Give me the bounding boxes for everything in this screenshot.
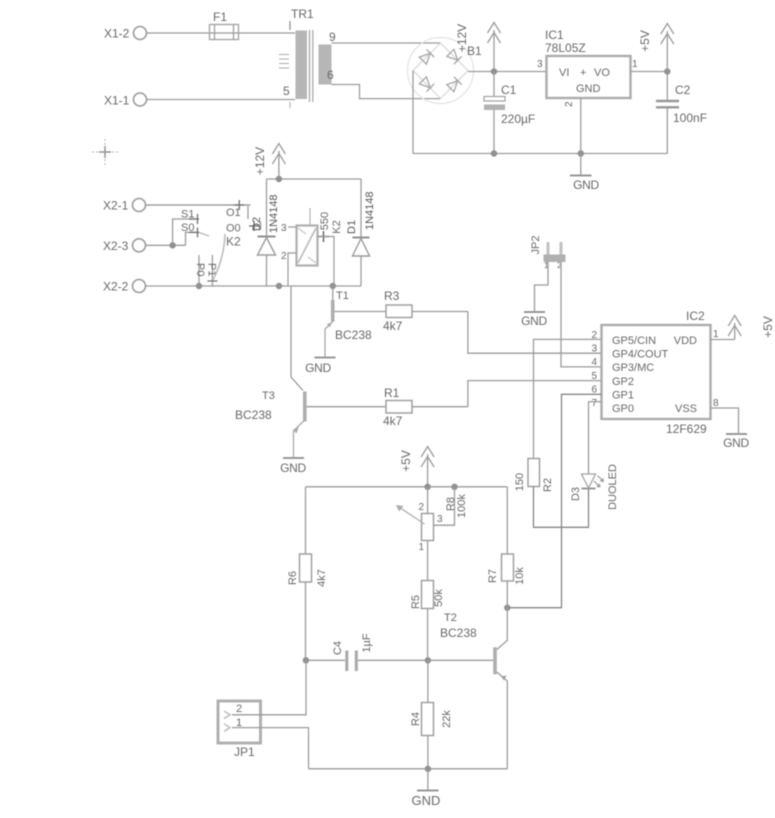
jumper JP2 xyxy=(530,236,566,270)
+5V rail lower xyxy=(306,486,508,488)
svg-text:X2-3: X2-3 xyxy=(103,239,129,253)
connector X1-1 xyxy=(104,93,147,108)
svg-text:T3: T3 xyxy=(262,390,275,402)
svg-text:3: 3 xyxy=(437,514,443,525)
wire TR1 pin9 to bridge top xyxy=(332,42,441,44)
junction C1 gnd rail xyxy=(491,150,497,156)
svg-text:C4: C4 xyxy=(332,641,344,655)
junction +12V rail xyxy=(276,176,282,182)
svg-text:R7: R7 xyxy=(487,569,499,583)
junction R4 bottom rail xyxy=(425,766,431,772)
ground GND psu xyxy=(570,154,600,193)
relay +12V top rail xyxy=(267,178,362,180)
wire bridge plus to IC1 input xyxy=(468,71,547,73)
wire IC1 output to +5V xyxy=(631,71,668,73)
svg-text:GND: GND xyxy=(573,178,599,192)
IC U2 12F629 xyxy=(591,309,719,436)
ground GND VSS xyxy=(723,434,749,450)
supply symbol +5V lower xyxy=(399,447,434,487)
sheet crosshair mark xyxy=(92,139,118,165)
junction +5V rail wiper xyxy=(451,484,457,490)
wire X1-2 to F1 to TR1 pin1 xyxy=(147,32,295,34)
svg-text:100nF: 100nF xyxy=(673,111,707,125)
wire R3 to IC2 GP4 xyxy=(468,312,602,354)
junction +5V rail R8 xyxy=(424,484,430,490)
wire IC2 GP5 to R2 xyxy=(534,339,602,458)
svg-text:9: 9 xyxy=(329,30,336,44)
svg-text:IC1: IC1 xyxy=(545,28,564,42)
svg-text:S1: S1 xyxy=(181,209,194,221)
svg-text:1: 1 xyxy=(632,59,638,70)
svg-text:X2-2: X2-2 xyxy=(103,280,129,294)
svg-text:R1: R1 xyxy=(384,386,400,400)
transistor T3 BC238 xyxy=(235,286,307,457)
svg-text:VI: VI xyxy=(559,67,569,79)
ground GND bottom xyxy=(412,769,441,808)
connector X2-1 xyxy=(103,199,146,213)
svg-text:B1: B1 xyxy=(467,44,482,58)
svg-text:GND: GND xyxy=(305,361,331,375)
wire TR1 pin6 to bridge bottom xyxy=(332,85,441,99)
resistor R1 4k7 xyxy=(307,386,468,428)
svg-text:3: 3 xyxy=(591,344,597,355)
svg-text:1µF: 1µF xyxy=(361,633,373,652)
svg-text:D1: D1 xyxy=(346,220,358,234)
fuse F1 xyxy=(210,10,239,40)
resistor R4 22k xyxy=(410,660,453,769)
svg-text:BC238: BC238 xyxy=(440,626,477,640)
svg-text:GP4/COUT: GP4/COUT xyxy=(612,349,669,361)
transformer TR1 xyxy=(279,7,336,108)
svg-text:1: 1 xyxy=(713,329,719,340)
svg-text:4k7: 4k7 xyxy=(383,319,403,333)
svg-text:+5V: +5V xyxy=(399,450,413,472)
svg-text:6: 6 xyxy=(327,68,334,82)
svg-text:C1: C1 xyxy=(501,83,517,97)
svg-text:4: 4 xyxy=(591,357,597,368)
junction C4/R5/R4 xyxy=(425,657,431,663)
svg-text:1N4148: 1N4148 xyxy=(268,194,280,233)
junction P0 on X2-2 wire xyxy=(196,283,202,289)
svg-text:+: + xyxy=(580,67,586,79)
svg-text:10k: 10k xyxy=(514,567,526,585)
ground GND JP2 xyxy=(521,312,547,328)
svg-text:GND: GND xyxy=(280,461,306,475)
bridge rectifier B1 xyxy=(408,38,483,104)
relay contact S0 xyxy=(181,222,209,245)
trimmer R8 100k xyxy=(396,487,468,581)
svg-text:GP1: GP1 xyxy=(612,390,634,402)
supply symbol +12V relay xyxy=(253,144,285,180)
relay contact S1 xyxy=(173,209,199,246)
wire X2-3 to contacts xyxy=(146,244,186,246)
wire X2-2 to relay net xyxy=(146,285,279,287)
relay contact pin O1 xyxy=(234,200,248,219)
relay contact pin P0 xyxy=(194,255,206,286)
bottom gnd rail xyxy=(309,768,508,770)
ground GND T3 xyxy=(280,458,306,475)
svg-text:GP2: GP2 xyxy=(612,376,634,388)
supply symbol +5V IC2 xyxy=(728,316,775,340)
svg-text:F1: F1 xyxy=(213,10,227,24)
svg-text:BC238: BC238 xyxy=(335,328,372,342)
wire JP2 pin1 to gnd xyxy=(535,262,549,311)
svg-text:220µF: 220µF xyxy=(501,112,535,126)
transistor T1 BC238 xyxy=(325,286,372,357)
svg-text:2: 2 xyxy=(418,502,424,513)
wire IC2 GP1 to R7/T2 xyxy=(507,394,601,607)
connector X2-2 xyxy=(103,280,146,294)
junction relay net T1 xyxy=(330,283,336,289)
svg-text:GND: GND xyxy=(412,793,441,808)
svg-text:4k7: 4k7 xyxy=(383,414,403,428)
svg-text:X1-2: X1-2 xyxy=(104,27,130,41)
svg-text:VO: VO xyxy=(594,67,610,79)
junction C4/R6/JP1 xyxy=(303,657,309,663)
svg-text:R5: R5 xyxy=(410,595,422,609)
supply symbol +5V psu xyxy=(638,24,674,72)
coil pin cross xyxy=(318,231,329,242)
connector X1-2 xyxy=(104,27,147,41)
svg-text:DUOLED: DUOLED xyxy=(607,464,619,510)
svg-text:VSS: VSS xyxy=(675,403,697,415)
svg-text:7: 7 xyxy=(591,398,597,409)
resistor R5 50k xyxy=(410,581,445,661)
svg-text:3: 3 xyxy=(537,59,543,70)
wire JP1 pin1 xyxy=(232,728,309,769)
svg-text:X2-1: X2-1 xyxy=(103,199,129,213)
svg-text:R4: R4 xyxy=(410,712,422,726)
junction IC1 gnd xyxy=(578,150,584,156)
ground GND T1 xyxy=(305,358,335,376)
resistor R7 10k xyxy=(487,487,526,608)
wire coil pin to relay net xyxy=(318,237,335,287)
junction relay net left xyxy=(276,283,282,289)
svg-text:P0: P0 xyxy=(194,263,206,276)
svg-text:R3: R3 xyxy=(384,289,400,303)
svg-text:IC2: IC2 xyxy=(686,309,705,323)
svg-text:5: 5 xyxy=(591,371,597,382)
svg-text:O0: O0 xyxy=(226,223,241,235)
svg-text:T2: T2 xyxy=(444,612,457,624)
wire bridge minus down to gnd rail xyxy=(412,71,414,154)
transistor T2 BC238 xyxy=(440,608,507,769)
svg-text:D3: D3 xyxy=(570,487,582,501)
supply symbol +12V xyxy=(455,23,501,72)
wire JP1 pin2 xyxy=(232,660,306,715)
relay contact pin P1 xyxy=(206,255,218,286)
svg-text:+12V: +12V xyxy=(253,147,267,175)
svg-text:5: 5 xyxy=(283,84,290,98)
svg-text:4k7: 4k7 xyxy=(316,569,328,587)
svg-text:C2: C2 xyxy=(675,83,691,97)
svg-text:2: 2 xyxy=(281,251,287,262)
svg-text:12F629: 12F629 xyxy=(666,422,707,436)
svg-text:BC238: BC238 xyxy=(235,408,272,422)
connector X2-3 xyxy=(103,239,146,253)
LED D3 DUOLED xyxy=(570,402,619,510)
wire X1-1 to TR1 pin5 xyxy=(147,99,295,101)
svg-text:2: 2 xyxy=(236,703,242,715)
relay driver net rail xyxy=(279,285,361,287)
svg-text:+5V: +5V xyxy=(638,30,652,52)
wire R1 to IC2 GP2 xyxy=(468,381,602,407)
svg-text:TR1: TR1 xyxy=(291,7,314,21)
svg-text:D2: D2 xyxy=(251,217,263,231)
capacitor C4 1uF xyxy=(306,633,428,671)
wire IC2 VSS to gnd xyxy=(711,408,739,433)
wire IC2 VDD to +5V xyxy=(711,339,735,341)
capacitor C2 xyxy=(656,72,707,154)
wire JP2 pin2 to IC2 GP3/MC xyxy=(561,262,601,367)
svg-text:R6: R6 xyxy=(287,571,299,585)
svg-text:R2: R2 xyxy=(542,478,554,492)
diode D1 1N4148 xyxy=(346,179,376,286)
voltage regulator IC1 78L05Z xyxy=(537,28,638,107)
svg-text:O1: O1 xyxy=(226,207,241,219)
svg-text:GP3/MC: GP3/MC xyxy=(612,362,654,374)
gnd rail top section xyxy=(413,153,667,155)
junction B1/C1/IC1 xyxy=(491,68,497,74)
svg-text:VDD: VDD xyxy=(674,335,697,347)
svg-text:X1-1: X1-1 xyxy=(104,94,130,108)
svg-text:JP2: JP2 xyxy=(530,236,542,255)
svg-text:+5V: +5V xyxy=(761,316,775,338)
relay contact pin O0 xyxy=(249,221,261,231)
junction R7/T2/GP1 xyxy=(504,605,510,611)
svg-text:GND: GND xyxy=(521,314,547,328)
svg-text:1: 1 xyxy=(418,542,424,553)
svg-text:S0: S0 xyxy=(181,222,194,234)
resistor R6 4k7 xyxy=(287,487,328,661)
svg-text:22k: 22k xyxy=(441,710,453,728)
junction X2-3 xyxy=(169,242,175,248)
svg-text:JP1: JP1 xyxy=(234,745,255,759)
svg-text:150: 150 xyxy=(514,473,526,491)
svg-text:1N4148: 1N4148 xyxy=(364,191,376,230)
wire R2 to D3 xyxy=(534,487,589,528)
svg-text:K2: K2 xyxy=(226,235,241,249)
svg-text:78L05Z: 78L05Z xyxy=(545,41,586,55)
svg-text:3: 3 xyxy=(281,223,287,234)
resistor R3 4k7 xyxy=(335,289,468,333)
svg-text:K2: K2 xyxy=(331,220,343,233)
resistor R2 150 xyxy=(514,459,554,493)
svg-text:GND: GND xyxy=(723,436,749,450)
capacitor C1 xyxy=(484,72,535,154)
relay coil K2 xyxy=(281,208,343,286)
wire IC1 gnd pin down xyxy=(580,98,582,154)
svg-text:100k: 100k xyxy=(456,494,468,518)
svg-text:+12V: +12V xyxy=(455,24,469,52)
wire X2-1 to relay contact O1 xyxy=(146,204,251,206)
svg-text:GP5/CIN: GP5/CIN xyxy=(612,335,656,347)
svg-text:550: 550 xyxy=(319,212,331,230)
wire to T2 base xyxy=(428,659,493,661)
diode D2 1N4148 xyxy=(251,179,280,286)
svg-text:GND: GND xyxy=(576,83,601,95)
svg-text:2: 2 xyxy=(564,101,575,107)
svg-text:GP0: GP0 xyxy=(612,403,634,415)
svg-text:T1: T1 xyxy=(336,290,349,302)
svg-text:50k: 50k xyxy=(433,589,445,607)
jumper JP1 xyxy=(218,701,261,759)
relay moving arm xyxy=(213,234,225,280)
junction VO/C2 xyxy=(664,68,670,74)
